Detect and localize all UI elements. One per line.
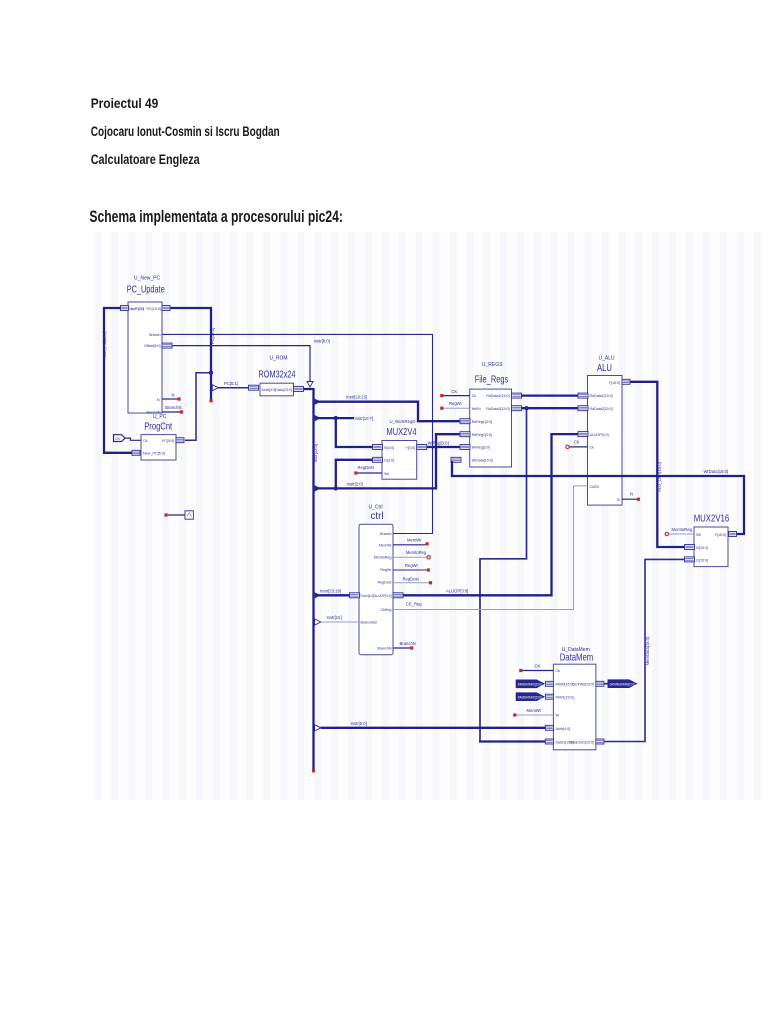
bus tap Instr[5:0] — [315, 725, 321, 731]
svg-text:RdData1[15:0]: RdData1[15:0] — [590, 394, 613, 398]
junction dot PC jog — [209, 371, 213, 375]
svg-text:RegWr: RegWr — [405, 563, 419, 568]
svg-text:Sel: Sel — [384, 472, 389, 476]
svg-text:Instr[23:0]: Instr[23:0] — [313, 444, 318, 463]
svg-text:N: N — [172, 393, 175, 398]
svg-text:MemData[15:0]: MemData[15:0] — [645, 637, 650, 666]
svg-text:Sel: Sel — [696, 533, 701, 537]
net connector RAMDATAIN2 hexagon — [516, 693, 544, 701]
bus tap Instr[23:19] — [315, 592, 321, 598]
pin BranchN wire — [162, 411, 180, 413]
net connector DATAREADRAM hexagon — [608, 680, 637, 688]
svg-text:U_REGS: U_REGS — [482, 362, 503, 368]
svg-text:MemWr: MemWr — [407, 538, 422, 543]
input connector CK — [114, 435, 126, 442]
wire Offset Instr[8:0] — [173, 346, 311, 382]
wire WrData[15:0] from MUX2V16 Y to File_Regs — [452, 461, 744, 534]
pin stub RdData2 — [512, 406, 522, 411]
svg-text:Data[23:0]: Data[23:0] — [275, 388, 292, 392]
pin stub RdData1 — [512, 393, 522, 398]
component ctrl (U_Ctrl) — [359, 505, 393, 655]
pin stub DataMem Addr — [545, 725, 553, 730]
svg-text:MemtoReg: MemtoReg — [406, 550, 427, 555]
pin stub ROM Data — [294, 387, 304, 392]
wire DataMem W — [516, 714, 553, 716]
pin stub DataMem INW0 — [545, 681, 553, 686]
svg-text:BranchN: BranchN — [378, 647, 392, 651]
junction dot Instr[10:7] — [334, 416, 338, 420]
svg-text:CkZN: CkZN — [590, 485, 600, 489]
component ROM32x24 (U_ROM) — [259, 355, 296, 396]
svg-text:PC[5:1]: PC[5:1] — [224, 381, 238, 386]
svg-text:Instr[23:19]: Instr[23:19] — [320, 588, 341, 593]
svg-text:DataMem: DataMem — [560, 651, 594, 663]
svg-text:ALU: ALU — [597, 362, 612, 374]
red terminal ALU N — [637, 498, 640, 501]
svg-text:U_New_PC: U_New_PC — [134, 276, 161, 282]
red terminal RegDest — [354, 471, 357, 474]
input connector (unconnected clock symbol) — [164, 511, 193, 519]
svg-text:W: W — [556, 714, 560, 718]
svg-text:RdData2[15:0]: RdData2[15:0] — [486, 407, 509, 411]
red open-end below PC vertical — [209, 399, 212, 402]
wire ctrl MemWr — [393, 544, 426, 546]
svg-text:MemWr: MemWr — [379, 543, 392, 547]
svg-text:Instr[2:0]: Instr[2:0] — [347, 482, 363, 487]
svg-text:Ck: Ck — [574, 440, 580, 445]
wire OUTW0 to hexagon — [604, 683, 608, 685]
red terminal BranchN — [180, 410, 183, 413]
net connector RAMDATAIN1 hexagon — [516, 680, 544, 688]
pin stub ProgCnt PC[5:0] — [176, 438, 184, 443]
pin stub WrReg — [460, 445, 470, 450]
svg-text:I0[15:0]: I0[15:0] — [696, 546, 708, 550]
svg-text:PC[5:0]: PC[5:0] — [162, 439, 174, 443]
wire Instr[10:7] — [318, 417, 354, 419]
bus tap Instr[10:7] — [315, 415, 321, 421]
pin stub DataMem Data1 — [545, 739, 553, 744]
svg-text:CK: CK — [115, 437, 121, 441]
pin stub ALU RdData1 — [578, 393, 588, 398]
red terminal BranchN — [410, 646, 413, 649]
pin stub DataMem INW1 — [545, 694, 553, 699]
svg-text:U_MUXRegD: U_MUXRegD — [390, 419, 417, 424]
svg-text:Proiectul 49: Proiectul 49 — [91, 95, 159, 111]
pin stub ROM Addr — [249, 385, 259, 390]
svg-text:WrReg[3:0]: WrReg[3:0] — [472, 446, 490, 450]
bus rip triangle Instr[8:0] — [307, 382, 313, 388]
wire RdData2 down to DataMem Data1 — [480, 408, 527, 740]
wire MUX2V4 Sel — [358, 472, 383, 474]
red terminal DataMem W — [513, 713, 516, 716]
wire RdData1 to ALU — [522, 394, 579, 396]
svg-text:New_PC[15:0]: New_PC[15:0] — [102, 332, 107, 359]
wire File_Regs WrEn — [443, 407, 470, 409]
svg-text:Branch: Branch — [149, 333, 160, 337]
svg-text:WrData[15:0]: WrData[15:0] — [704, 469, 729, 474]
svg-text:Y[3:0]: Y[3:0] — [405, 446, 414, 450]
component MUX2V16 — [694, 513, 730, 567]
pin stub MUX2V16 I1 — [685, 557, 695, 562]
junction dot RdData2 branch — [524, 406, 528, 410]
wire ALUOP[3:0] to ALU — [403, 434, 578, 595]
wire ctrl RegWr — [393, 569, 427, 571]
svg-text:RdReg1[3:0]: RdReg1[3:0] — [472, 420, 492, 424]
svg-text:CkReg: CkReg — [381, 608, 392, 612]
pin stub ctrl Func left — [350, 593, 360, 598]
pin stub MUX2V4 Y — [417, 445, 427, 450]
svg-text:RdData1[15:0]: RdData1[15:0] — [486, 394, 509, 398]
pin stub PC[15:0] — [162, 306, 170, 311]
svg-text:CK: CK — [452, 389, 458, 394]
wire MUX2V16 I1 from DataMem DataOut — [604, 559, 685, 741]
svg-text:Ck: Ck — [590, 446, 595, 450]
svg-text:U_PC: U_PC — [153, 414, 167, 420]
wire ctrl MemtoReg — [393, 556, 428, 558]
svg-text:RdReg2[3:0]: RdReg2[3:0] — [472, 433, 492, 437]
pin stub ALU ALUOP — [578, 432, 588, 437]
svg-text:RAMDATAIN2[15:0]: RAMDATAIN2[15:0] — [518, 695, 542, 699]
svg-text:MemtoReg: MemtoReg — [374, 555, 392, 559]
svg-text:INW1[15:0]: INW1[15:0] — [556, 696, 574, 700]
wire BranchSel — [321, 621, 359, 623]
svg-text:MemWr: MemWr — [527, 708, 542, 713]
wire ALU CkZN from ctrl CE_Reg — [393, 486, 588, 610]
pin stub ProgCnt New_PC[5:0] — [132, 450, 140, 455]
svg-text:I1[15:0]: I1[15:0] — [696, 559, 708, 563]
pin stub RdReg2 — [460, 432, 470, 437]
svg-text:PC[15:0]: PC[15:0] — [147, 307, 162, 311]
svg-text:DATAREADRAM[15:0]: DATAREADRAM[15:0] — [610, 682, 635, 686]
wire PC[5:1] — [218, 387, 248, 389]
wire ctrl RegDest — [393, 582, 429, 584]
svg-text:Offset[8:0]: Offset[8:0] — [144, 344, 161, 348]
wire MUX2V4 Y to File_Regs WrReg — [427, 446, 460, 448]
pin stub DataMem OUTW0 — [596, 681, 604, 686]
svg-text:RdData2[15:0]: RdData2[15:0] — [590, 407, 613, 411]
svg-text:WrReg[3:0]: WrReg[3:0] — [428, 440, 449, 445]
pin stub ALU Y — [622, 379, 630, 384]
pin N wire — [162, 398, 178, 400]
svg-text:MemtoReg: MemtoReg — [672, 527, 693, 532]
wire ALU Ck — [569, 446, 588, 448]
bus tap Instr[18:15] — [315, 399, 321, 405]
pin stub ALU RdData2 — [578, 406, 588, 411]
wire ALU N — [622, 498, 637, 500]
svg-text:I1[3:0]: I1[3:0] — [384, 459, 394, 463]
pin stub NewPC[15:0] — [121, 306, 129, 311]
red terminal File_Regs WrEn — [440, 407, 443, 410]
svg-text:WrData[15:0]: WrData[15:0] — [472, 459, 493, 463]
svg-text:Instr[18:15]: Instr[18:15] — [346, 395, 367, 400]
svg-text:ROM32x24: ROM32x24 — [259, 368, 296, 380]
svg-text:NewPC[15:0]: NewPC[15:0] — [129, 307, 144, 311]
svg-text:ALUOP[3:0]: ALUOP[3:0] — [446, 589, 468, 594]
svg-text:Ck: Ck — [143, 439, 148, 443]
svg-text:Addr[4:0]: Addr[4:0] — [262, 388, 277, 392]
svg-text:PC_Update: PC_Update — [127, 284, 165, 296]
svg-text:RegWr: RegWr — [380, 568, 392, 572]
pin stub Offset[8:0] — [162, 343, 172, 348]
wire CK to ProgCnt — [125, 438, 141, 440]
red terminal N — [177, 397, 180, 400]
red terminal RegWr — [427, 568, 430, 571]
wire to MUX2V4 I0 — [336, 418, 373, 447]
svg-text:RAMDATAIN1[15:0]: RAMDATAIN1[15:0] — [518, 682, 542, 686]
component MUX2V4 (U_MUXRegD) — [382, 419, 417, 479]
svg-text:MUX2V4: MUX2V4 — [387, 427, 417, 438]
component File_Regs (U_REGS) — [470, 362, 512, 467]
pin stub WrData — [451, 457, 461, 462]
svg-text:INW0[15:0]: INW0[15:0] — [556, 682, 574, 686]
wire Instr[2:0] — [318, 434, 460, 488]
svg-text:BranchN: BranchN — [400, 641, 416, 646]
component ALU (U_ALU) — [588, 356, 623, 506]
pin stub RdReg1 — [460, 419, 470, 424]
wire ROM Data to Instr bus — [304, 388, 314, 390]
svg-text:N: N — [630, 492, 633, 497]
wire PC[15:0] to vertical — [171, 307, 212, 309]
svg-text:RegWr: RegWr — [449, 401, 463, 406]
pin stub MUX2V16 I0 — [685, 545, 695, 550]
wire RdData2 to ALU — [522, 407, 579, 409]
svg-text:Y[15:0]: Y[15:0] — [715, 533, 726, 537]
wire File_Regs Ck — [443, 395, 470, 397]
svg-text:ALUOP[3:0]: ALUOP[3:0] — [590, 433, 609, 437]
red terminal ALU Ck — [566, 445, 569, 448]
wire jog ProgCnt PC output to vertical — [185, 373, 211, 441]
svg-text:N: N — [157, 398, 160, 402]
red terminal DataMem Ck — [519, 669, 522, 672]
wire ALU Y to MUX2V16 I0 — [630, 382, 686, 547]
svg-text:CE_Reg: CE_Reg — [406, 602, 422, 607]
component ProgCnt (U_PC) — [141, 414, 176, 460]
svg-text:CK: CK — [535, 664, 541, 669]
svg-text:File_Regs: File_Regs — [475, 374, 509, 386]
svg-text:Schema implementata a procesor: Schema implementata a procesorului pic24… — [89, 208, 343, 226]
svg-text:Calculatoare Engleza: Calculatoare Engleza — [91, 151, 200, 167]
wire Instr[23:19] to ctrl Func — [318, 594, 350, 596]
red open-end bus bottom — [312, 769, 315, 772]
svg-text:N: N — [617, 498, 620, 502]
red terminal MUX2V16 Sel — [665, 532, 668, 535]
svg-text:Cojocaru Ionut-Cosmin si Iscru: Cojocaru Ionut-Cosmin si Iscru Bogdan — [91, 123, 280, 139]
svg-text:OUTW0[15:0]: OUTW0[15:0] — [572, 682, 594, 686]
wire Branch from PC_Update to ctrl — [162, 334, 433, 533]
bus Instr[23:0] vertical — [312, 388, 314, 771]
bus tap Instr[2:0] — [315, 485, 321, 491]
wire Instr[5:0] to DataMem Addr — [321, 727, 546, 729]
svg-text:Instr[5:0]: Instr[5:0] — [351, 721, 367, 726]
component DataMem (U_DataMem) — [553, 647, 596, 750]
svg-text:BranchN: BranchN — [165, 405, 181, 410]
component PC_Update (U_New_PC) — [127, 276, 165, 415]
svg-text:Instr[8:0]: Instr[8:0] — [314, 339, 330, 344]
wire to MUX2V4 I1 — [336, 460, 373, 489]
wire ctrl BranchN — [393, 647, 411, 649]
svg-text:BranchSel: BranchSel — [361, 621, 378, 625]
svg-text:ProgCnt: ProgCnt — [144, 420, 172, 432]
wire Instr[18:15] to File_Regs RdReg1 — [318, 402, 460, 422]
bus tap PC[5:1] to ROM — [212, 385, 218, 391]
svg-text:PC[15:0]: PC[15:0] — [210, 328, 215, 344]
svg-text:Ck: Ck — [472, 394, 477, 398]
svg-text:Func[4:0]ALUOP[3:0]: Func[4:0]ALUOP[3:0] — [361, 594, 392, 598]
svg-text:Branch: Branch — [380, 532, 391, 536]
wire MUX2V16 Sel — [669, 533, 695, 535]
svg-text:New_PC[5:0]: New_PC[5:0] — [143, 452, 165, 456]
pin stub MUX2V4 I0 — [373, 445, 383, 450]
wire DataMem Ck — [522, 670, 553, 672]
svg-text:RegDest: RegDest — [358, 465, 375, 470]
junction dot Instr[2:0] to MUX I1 — [334, 486, 338, 490]
svg-text:U_ROM: U_ROM — [270, 355, 288, 361]
pin stub MUX2V16 Y — [729, 532, 737, 537]
pin stub MUX2V4 I1 — [373, 457, 383, 462]
svg-text:WrEn: WrEn — [472, 407, 481, 411]
pin stub DataMem DataOut1 — [596, 739, 604, 744]
svg-text:I0[3:0]: I0[3:0] — [384, 446, 394, 450]
wire PC vertical — [210, 307, 212, 400]
red terminal File_Regs Ck — [440, 394, 443, 397]
svg-text:U_ALU: U_ALU — [599, 356, 616, 362]
wire NewPC feedback left loop — [104, 308, 132, 453]
svg-text:RegDest: RegDest — [403, 576, 420, 581]
svg-text:Addr[4:0]: Addr[4:0] — [556, 727, 571, 731]
bus tap BranchSel — [315, 619, 321, 625]
svg-text:DataOut1[15:0]: DataOut1[15:0] — [570, 741, 594, 745]
svg-text:Instr[10:7]: Instr[10:7] — [355, 416, 374, 421]
red terminal RegDest — [429, 581, 432, 584]
svg-text:RegDest: RegDest — [378, 581, 392, 585]
pin stub ctrl ALUOP right — [393, 593, 403, 598]
svg-text:MUX2V16: MUX2V16 — [694, 513, 730, 525]
svg-text:Instr[15]: Instr[15] — [327, 615, 342, 620]
red terminal MemtoReg — [427, 556, 430, 559]
svg-text:Y[15:0]: Y[15:0] — [609, 381, 620, 385]
red terminal MemWr — [426, 542, 429, 545]
svg-text:Ck: Ck — [556, 669, 561, 673]
svg-text:ctrl: ctrl — [371, 510, 384, 522]
